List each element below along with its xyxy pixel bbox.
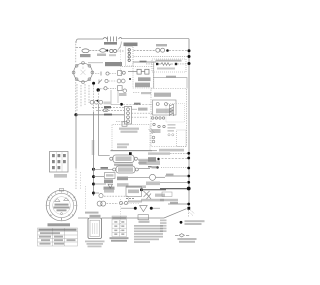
node: dot y184 — [92, 183, 95, 186]
wire: row4 to bus — [161, 166, 188, 168]
row4 tick — [148, 166, 152, 168]
reverse caution module box — [152, 59, 186, 72]
connector block J2 — [50, 152, 69, 173]
wire: S1 lead 5 — [93, 85, 95, 112]
contact square K1a — [156, 63, 158, 65]
solenoid text — [104, 180, 113, 184]
battery plates — [93, 223, 98, 234]
node: dot left funnel — [134, 207, 137, 210]
contact row C circle — [104, 87, 107, 90]
wire: fuse output drop — [118, 42, 122, 50]
contact row A circle — [106, 72, 109, 75]
legend left tiny text — [160, 220, 167, 233]
resistor R1 — [159, 63, 174, 66]
engine top wire label — [166, 76, 176, 78]
seat switch terminal left — [110, 157, 113, 160]
ammeter label — [97, 54, 106, 57]
engine contact c5 — [153, 123, 155, 125]
wire label on battery feed — [104, 114, 112, 116]
legend: solderless connector symbol — [180, 221, 183, 224]
fuse F1 on top line — [103, 37, 122, 42]
dotted row y203.5 — [121, 203, 140, 205]
ammeter A1 — [100, 49, 106, 53]
reverse caution title — [156, 60, 182, 62]
wire: clutch pill right — [138, 168, 150, 170]
node: square junction above pill — [129, 152, 132, 155]
wire: module leg to seat switch — [98, 104, 109, 155]
small box below funnel — [138, 215, 149, 220]
wire: battery feed horizontal — [76, 114, 124, 116]
wire row A — [95, 73, 116, 75]
magneto inner box — [153, 100, 177, 115]
dashes y92.5 — [133, 92, 140, 94]
interlock module box — [112, 124, 150, 150]
node: dot y193 — [92, 192, 95, 195]
wire: row y188 thick — [160, 188, 187, 190]
clutch brake pill — [116, 166, 135, 173]
fuse label — [104, 42, 117, 45]
wire: relay feed dashed — [116, 121, 124, 123]
wire: S1 lead 2 — [80, 85, 82, 107]
engine contact c4 — [162, 117, 164, 119]
wire: J1 pin3 right dashed — [132, 116, 149, 118]
wire: row y176 — [165, 175, 188, 177]
clutch terminal left — [113, 168, 116, 171]
engine contact c6 — [158, 125, 160, 127]
node: box left dot — [129, 78, 131, 80]
wire: dashed drop x128.5 — [128, 197, 130, 203]
node: bus junction 1 — [188, 49, 191, 52]
wire: magneto kill wire — [123, 104, 153, 106]
wire: left feeder dashed top — [75, 41, 77, 63]
module side circle 2 — [152, 140, 155, 143]
wire: row y184 — [94, 183, 107, 185]
wire: engine top feed — [153, 78, 187, 89]
circuit breaker CB1 — [82, 49, 89, 53]
wire: vertical drop x118 — [117, 90, 119, 103]
wire label above — [101, 167, 109, 169]
contact row C box — [118, 86, 123, 91]
label y202 — [170, 202, 178, 204]
contact row B marks — [98, 80, 102, 84]
legend: connector assembly symbol — [175, 234, 189, 237]
wire: top line to right bus — [122, 38, 189, 40]
key table row texts — [39, 232, 76, 244]
engine inner dashed box right — [177, 130, 187, 147]
ignition switch label top — [124, 43, 138, 47]
magneto text — [156, 109, 173, 114]
middle table label — [110, 237, 129, 239]
wire: seat switch right label — [138, 159, 148, 161]
indicator lamps L1 L2 — [110, 49, 113, 52]
node: dot at x93 y169 — [92, 168, 95, 171]
wire: second row feed — [76, 47, 81, 49]
small box y192 — [162, 192, 172, 197]
terminal L — [128, 52, 130, 54]
magneto terminal 1 — [156, 103, 159, 106]
node: main junction B+ — [74, 113, 77, 116]
clutch pill label above — [114, 164, 133, 166]
clutch circles pair — [97, 201, 102, 206]
wire: J1 pin2 right dashed — [132, 112, 153, 114]
middle table (switch positions) — [112, 216, 127, 237]
relay coil box — [122, 122, 127, 126]
wire: lamps to ignition column — [117, 50, 124, 52]
module text line 4 — [117, 146, 127, 148]
J2 label below — [54, 174, 67, 178]
contact row A tick — [100, 72, 102, 76]
wire: to solenoid box — [94, 176, 105, 178]
light switch box right edge — [153, 62, 155, 88]
node: dot right funnel — [150, 207, 153, 210]
node: bus junction y182 — [187, 181, 190, 184]
node: bus junction 3 — [188, 62, 191, 65]
wire: thick row y190 — [142, 189, 167, 191]
ignition switch S1 terminal column — [126, 47, 134, 67]
engine label — [154, 93, 171, 97]
wire: S1 lead 3 — [84, 84, 86, 105]
middle table header — [112, 217, 126, 219]
middle table cells — [114, 221, 124, 235]
seat switch text — [116, 156, 132, 161]
node: bus junction y204 — [187, 203, 190, 206]
contact row C circle2 — [123, 89, 127, 93]
wire: row y177 left — [128, 176, 149, 178]
contact square K1b — [175, 63, 177, 65]
wire: row y182 — [160, 181, 188, 183]
light switch text row2 — [135, 83, 150, 88]
magneto wire label — [134, 103, 141, 105]
text rows near triangle — [104, 187, 115, 190]
solenoid box text — [106, 174, 114, 176]
interlock module bottom edge — [111, 150, 153, 152]
node: top of J1 dot — [120, 103, 123, 106]
wire: row3 to bus — [162, 158, 189, 160]
text right of solenoid — [117, 177, 128, 181]
node: row C source dot — [97, 88, 100, 91]
wire: S1 lead 1 — [76, 84, 78, 112]
engine assembly dashed box — [151, 89, 187, 147]
key switch detail circle — [46, 190, 77, 221]
text row y199 — [160, 199, 178, 201]
engine tiny circles — [168, 134, 170, 136]
hatch near module right — [149, 129, 155, 135]
module side circle 1 — [152, 136, 155, 139]
starter box — [126, 187, 142, 197]
key switch label — [48, 223, 71, 226]
connector J1 — [125, 106, 132, 124]
node: dot y190 — [140, 188, 143, 191]
wire: to clutch pill — [94, 168, 113, 170]
left drop to ground area — [85, 186, 87, 210]
contact row A box — [118, 71, 122, 76]
label right of J1 — [138, 108, 148, 111]
wire: accessory line — [134, 56, 189, 58]
wire: left feeder dashed tail — [75, 168, 77, 189]
operator presence relay label — [139, 160, 160, 165]
wire row B — [109, 80, 117, 82]
light switch text — [138, 77, 151, 81]
node: bus bottom square — [187, 207, 190, 210]
J2 dividers — [57, 152, 63, 172]
engine contact c2 — [155, 117, 157, 119]
wire: funnel row — [121, 207, 160, 209]
wire: headlight feed left — [134, 50, 156, 52]
wire: box top line — [133, 61, 156, 63]
dashes bottom left of starter — [126, 198, 135, 200]
connector plug circles — [90, 100, 94, 104]
J1 pin 2 — [127, 112, 130, 115]
engine inner dotted sub-box — [166, 104, 185, 123]
key switch rim ticks — [46, 190, 77, 221]
wire: left feeder solid to bottom — [75, 115, 77, 168]
wire: contact link — [128, 71, 145, 73]
contact row A circle2 — [122, 71, 125, 74]
text blob below row C — [119, 93, 127, 96]
module text line 3 — [117, 143, 129, 145]
engine contact c3 — [159, 117, 161, 119]
note paragraph — [134, 225, 163, 243]
key switch inner ring — [49, 193, 73, 217]
solenoid box — [105, 173, 116, 179]
wire: module leg dashed upper — [97, 91, 99, 105]
contact box K2b — [145, 69, 149, 74]
battery label — [90, 215, 101, 217]
contact row B circle — [105, 79, 108, 82]
wire: S1 top to light switch — [88, 62, 103, 64]
dotted row in box — [122, 66, 152, 68]
node: dot row3 — [157, 158, 159, 160]
wire: right vertical bus — [188, 39, 190, 210]
ignition switch label — [105, 62, 122, 66]
seat switch pill — [113, 155, 134, 163]
text row y186 — [126, 185, 146, 188]
dotted drop x120.5 — [120, 199, 122, 232]
wire row C — [100, 87, 116, 90]
key position table — [38, 228, 78, 246]
label on wire — [152, 166, 159, 168]
key switch face marks — [55, 198, 69, 202]
battery note text — [85, 241, 105, 248]
wire: J1 pin1 right — [132, 108, 138, 110]
clutch brake text — [118, 167, 133, 171]
funnel component — [140, 206, 148, 212]
headlights label — [156, 44, 167, 46]
wire: frayed ends — [190, 211, 195, 216]
ignition switch S1 rotary body — [74, 63, 93, 82]
wire: module to bus — [178, 63, 190, 65]
wire: row2 to J1 — [96, 109, 124, 111]
wire: breaker to ammeter — [89, 50, 99, 52]
key line dashes — [80, 172, 82, 190]
key switch terminal ticks — [48, 197, 75, 220]
wire: top red supply line — [76, 39, 103, 43]
wire: below engine row1 — [148, 150, 157, 152]
row1 text — [159, 149, 184, 152]
legend text 2 — [178, 238, 197, 240]
middle table label row2 — [111, 240, 127, 242]
engine text blob 1 — [152, 129, 161, 133]
wire: module stub left — [146, 63, 152, 65]
S1 terminal bumps — [72, 62, 94, 84]
hour meter text — [146, 182, 160, 186]
lamps label — [109, 54, 116, 56]
tiny text left of dot — [104, 102, 111, 105]
wire: J1 dotted drop — [120, 47, 122, 75]
node: headlight junction — [166, 49, 169, 52]
key switch bottom terminal — [61, 213, 63, 215]
node: junction dot at ammeter — [106, 49, 108, 51]
label y174 — [166, 174, 174, 176]
module text line 2 — [121, 131, 138, 133]
wire: row2 to bus — [170, 152, 188, 154]
J1 pin 1 — [127, 108, 130, 111]
arrows to starter — [144, 191, 152, 199]
key switch inner ring 3 — [53, 197, 71, 215]
node: bus junction 5 — [187, 157, 190, 160]
light switch top wire label — [140, 61, 147, 63]
key table header text — [39, 229, 77, 231]
dark component on row — [104, 106, 111, 108]
wire: dashed y196 — [104, 195, 128, 197]
node: bus junction 2 — [188, 55, 191, 58]
node: bus junction y188 thick — [187, 187, 191, 191]
J2 pin glyphs — [52, 154, 66, 169]
module text line 1 — [119, 128, 139, 130]
terminal B — [128, 49, 130, 51]
node: bus junction 6 — [187, 167, 190, 170]
triangle component — [108, 184, 113, 188]
contact box K2a — [137, 69, 141, 74]
engine text blob 2 — [168, 124, 176, 126]
magneto terminal 2 — [165, 103, 168, 106]
row2 text — [148, 152, 170, 154]
terminal A — [128, 56, 130, 58]
wire: x93 main drop — [93, 112, 95, 196]
node: dot y176 — [92, 175, 95, 178]
wire: ground bus left stub — [78, 217, 88, 219]
node: bus junction 4 — [187, 152, 190, 155]
small comp right — [119, 201, 122, 204]
wire: row y204 — [168, 203, 188, 205]
label above y201 — [128, 200, 142, 202]
contact row B circles right — [117, 79, 121, 83]
wire: headlight to bus — [169, 50, 189, 52]
spark plug hatched — [170, 104, 174, 116]
wire: left feeder mid — [75, 82, 77, 114]
small text row y92 — [141, 92, 151, 94]
text right of arrows — [155, 194, 165, 197]
legend text 1 — [185, 220, 205, 222]
label below box — [139, 221, 150, 223]
small oval on row2 — [103, 109, 108, 112]
amp text blob — [148, 157, 156, 161]
hour meter circle — [150, 174, 156, 180]
wire: row y193 — [94, 192, 100, 194]
key switch top notch — [59, 189, 63, 191]
starter text — [128, 190, 139, 194]
wire: row y177 right — [156, 176, 165, 178]
small circle comp — [99, 194, 103, 198]
key switch center text — [55, 204, 69, 206]
wire: vertical drop x111 — [111, 90, 121, 105]
node: bus junction y176 — [187, 175, 190, 178]
wire: ground bus — [102, 209, 187, 218]
node: S1 output dot — [92, 82, 95, 85]
text below arrows — [141, 199, 164, 202]
engine contact c7 — [163, 125, 165, 127]
text above — [104, 190, 114, 193]
J1 pin 4 — [127, 120, 130, 123]
module lower text — [157, 68, 175, 70]
wire: S1 lead 4 — [88, 85, 90, 103]
battery label row0 — [85, 212, 99, 214]
engine contact c1 — [152, 117, 154, 119]
headlight lamp HL1 — [156, 48, 160, 52]
S1 inner marks — [81, 67, 86, 75]
terminal S — [128, 59, 130, 61]
rotated wire label — [92, 140, 95, 155]
seat switch terminal right — [134, 157, 137, 160]
clutch terminal right — [135, 168, 138, 171]
wire: dashed y203 — [107, 203, 119, 205]
battery BT1 — [88, 218, 102, 239]
headlight lamp HL2 — [161, 48, 165, 52]
wire: bus tail dashes — [188, 210, 190, 217]
node: dot row4 — [156, 166, 158, 168]
node: plug dot — [97, 100, 99, 102]
J1 pin 3 — [127, 116, 130, 119]
circuit breaker label — [80, 54, 91, 57]
light switch box — [133, 62, 154, 88]
wire: row to connector J1 pin1 — [92, 106, 124, 108]
battery inner — [90, 220, 100, 236]
